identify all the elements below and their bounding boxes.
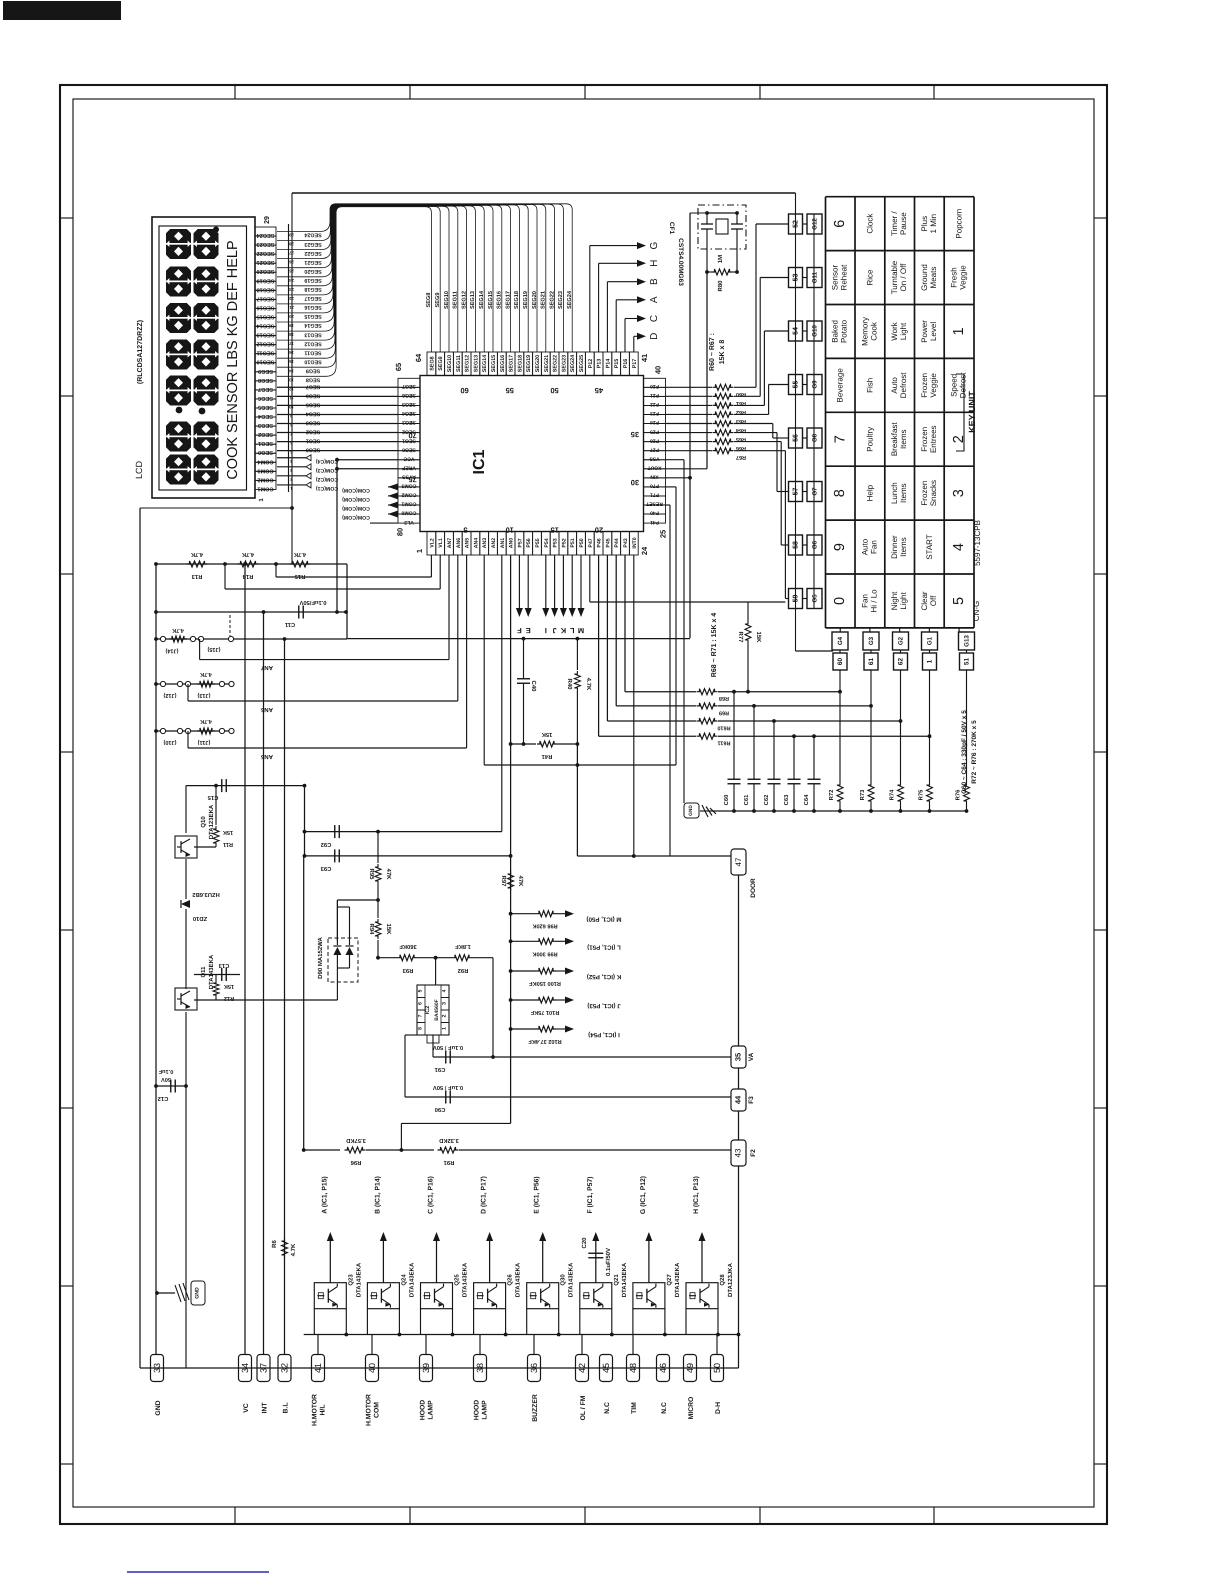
drive arrow G (IC1, P12) xyxy=(648,1240,650,1283)
svg-text:SEG16: SEG16 xyxy=(304,304,321,310)
svg-text:R98 620K: R98 620K xyxy=(532,923,557,929)
svg-text:SEG1: SEG1 xyxy=(258,440,273,446)
key line box G9 xyxy=(807,375,822,395)
svg-text:D-H: D-H xyxy=(715,1402,722,1414)
svg-text:P41: P41 xyxy=(650,519,659,525)
svg-text:43: 43 xyxy=(734,1148,743,1157)
svg-text:SEG8: SEG8 xyxy=(258,377,273,383)
svg-text:G10: G10 xyxy=(812,325,819,337)
svg-text:7: 7 xyxy=(418,1014,424,1017)
svg-text:15K: 15K xyxy=(385,923,392,935)
key line box G5 xyxy=(807,589,822,609)
transistor Q28 DTA123JKA xyxy=(686,1283,718,1309)
svg-text:SEG18: SEG18 xyxy=(517,355,523,372)
svg-text:SEG15: SEG15 xyxy=(256,313,274,319)
svg-text:Meats: Meats xyxy=(929,267,938,289)
key column stubs from table xyxy=(839,628,841,632)
svg-text:B: B xyxy=(649,278,660,285)
svg-text:G2: G2 xyxy=(898,636,905,645)
svg-text:20: 20 xyxy=(595,526,603,535)
svg-text:15K: 15K xyxy=(223,829,233,835)
svg-text:P51: P51 xyxy=(570,538,576,547)
svg-text:COM1: COM1 xyxy=(401,501,416,507)
svg-text:AN1: AN1 xyxy=(500,538,506,548)
svg-text:INT: INT xyxy=(262,1402,269,1414)
svg-text:SEG5: SEG5 xyxy=(402,401,416,407)
door sense line xyxy=(577,855,731,857)
jumper row J12 J13 with AN6 xyxy=(156,683,232,685)
svg-text:SEG11: SEG11 xyxy=(304,349,321,355)
svg-text:47K: 47K xyxy=(517,875,524,887)
svg-text:SEG16: SEG16 xyxy=(497,291,503,309)
svg-text:SEG19: SEG19 xyxy=(304,277,321,283)
svg-text:G8: G8 xyxy=(812,433,819,442)
svg-text:SEG13: SEG13 xyxy=(473,355,479,372)
svg-text:36: 36 xyxy=(529,1363,539,1373)
left leg of divider xyxy=(303,856,305,1150)
svg-text:G7: G7 xyxy=(812,487,819,496)
svg-text:Items: Items xyxy=(899,483,908,503)
svg-text:SEG12: SEG12 xyxy=(461,291,467,309)
svg-text:Turntable: Turntable xyxy=(890,260,899,294)
svg-text:R69: R69 xyxy=(719,709,729,715)
svg-text:SEG15: SEG15 xyxy=(488,291,494,309)
terminal box 54 xyxy=(789,321,803,341)
svg-text:KEY UNIT: KEY UNIT xyxy=(967,391,977,433)
svg-text:16: 16 xyxy=(289,350,294,355)
svg-text:15: 15 xyxy=(289,359,294,364)
svg-text:56: 56 xyxy=(793,434,800,442)
svg-text:Auto: Auto xyxy=(890,377,899,394)
svg-text:Q27: Q27 xyxy=(666,1274,673,1286)
AN6 wire xyxy=(187,684,189,701)
svg-text:COM: COM xyxy=(374,1402,381,1418)
svg-text:R91: R91 xyxy=(443,1159,454,1166)
svg-text:SEG24: SEG24 xyxy=(567,290,573,309)
svg-text:50: 50 xyxy=(712,1363,722,1373)
terminal 37 INT xyxy=(257,1355,270,1382)
svg-text:P57: P57 xyxy=(517,538,523,547)
svg-text:On / Off: On / Off xyxy=(899,263,908,292)
svg-text:Fresh: Fresh xyxy=(950,267,959,287)
sheet outer border xyxy=(60,85,1107,1524)
svg-text:LAMP: LAMP xyxy=(482,1400,489,1420)
capacitor C13 xyxy=(194,974,240,976)
svg-text:R93: R93 xyxy=(402,967,413,974)
svg-text:Reheat: Reheat xyxy=(840,264,849,291)
terminal box 35 VA xyxy=(731,1046,746,1068)
svg-text:DOOR: DOOR xyxy=(750,878,757,898)
svg-text:Light: Light xyxy=(899,592,908,610)
crystal dash-dot box xyxy=(698,205,746,249)
svg-text:40: 40 xyxy=(367,1363,377,1373)
VSS ground wire xyxy=(666,459,685,461)
capacitor C20 0.1uF/50V on F drive xyxy=(588,1252,603,1254)
svg-text:8: 8 xyxy=(418,1027,424,1030)
LCD decimal point xyxy=(213,227,219,233)
svg-text:K (IC1, P52): K (IC1, P52) xyxy=(587,973,621,980)
border zone ticks top xyxy=(234,85,236,99)
svg-text:SEG9: SEG9 xyxy=(435,293,441,308)
svg-text:64: 64 xyxy=(414,353,423,362)
svg-text:SEG9: SEG9 xyxy=(438,356,444,370)
svg-text:SEG6: SEG6 xyxy=(258,395,273,401)
VCC rail down to C11 line xyxy=(336,460,338,612)
svg-text:AN5: AN5 xyxy=(260,753,273,760)
svg-text:15K x 8: 15K x 8 xyxy=(719,340,726,365)
svg-text:SEG10: SEG10 xyxy=(304,358,321,364)
svg-text:P26: P26 xyxy=(650,437,659,443)
svg-text:XOUT: XOUT xyxy=(648,464,662,470)
bus from scan line to box 60 xyxy=(796,650,834,652)
svg-text:R80: R80 xyxy=(717,280,724,292)
svg-text:22: 22 xyxy=(289,296,294,301)
AN7 wire xyxy=(199,639,201,660)
svg-text:SEG15: SEG15 xyxy=(304,313,321,319)
svg-text:SEG22: SEG22 xyxy=(256,250,274,256)
svg-text:15K: 15K xyxy=(541,731,552,737)
svg-text:Poultry: Poultry xyxy=(865,427,874,452)
svg-text:SEG13: SEG13 xyxy=(304,331,321,337)
svg-text:(J15): (J15) xyxy=(207,646,220,653)
svg-text:4.7K: 4.7K xyxy=(293,551,306,557)
svg-text:Ground: Ground xyxy=(920,264,929,291)
svg-text:LAMP: LAMP xyxy=(428,1400,435,1420)
page header black bar xyxy=(3,1,121,20)
svg-text:XIN: XIN xyxy=(650,474,659,480)
svg-text:C90: C90 xyxy=(435,1106,446,1113)
key return bus vertical xyxy=(813,214,815,609)
svg-text:P22: P22 xyxy=(650,401,659,407)
terminal 38 HOOD LAMP xyxy=(474,1355,487,1382)
jumper row J10 J11 with AN5 xyxy=(156,730,232,732)
svg-text:P12: P12 xyxy=(588,359,594,369)
svg-text:45: 45 xyxy=(601,1363,611,1373)
svg-text:SEG22: SEG22 xyxy=(304,250,321,256)
svg-text:C13: C13 xyxy=(218,962,229,969)
svg-text:Q11: Q11 xyxy=(200,966,207,978)
svg-text:P46: P46 xyxy=(597,538,603,547)
svg-text:SEG7: SEG7 xyxy=(402,383,416,389)
svg-text:45: 45 xyxy=(595,386,603,395)
svg-text:53: 53 xyxy=(793,274,800,282)
svg-text:G13: G13 xyxy=(964,635,971,647)
svg-text:Items: Items xyxy=(899,429,908,449)
transistor Q26 DTA143EKA xyxy=(474,1283,506,1309)
svg-text:4.7K: 4.7K xyxy=(241,551,254,557)
SEG7-SEG0 wires LCD to IC1 xyxy=(277,386,398,388)
svg-text:Pause: Pause xyxy=(899,212,908,235)
svg-text:H (IC1, P13): H (IC1, P13) xyxy=(693,1176,700,1214)
svg-text:P43: P43 xyxy=(623,538,629,547)
svg-text:SEG4: SEG4 xyxy=(402,410,416,416)
svg-text:H/L: H/L xyxy=(320,1405,327,1416)
Q11 emitter down xyxy=(185,1012,187,1368)
LCD module outline xyxy=(152,217,255,498)
svg-text:SEG5: SEG5 xyxy=(258,404,273,410)
capacitor C15 xyxy=(186,785,305,787)
svg-text:37: 37 xyxy=(259,1363,269,1373)
dual diode D90 MA152WA xyxy=(337,899,378,901)
XIN wire xyxy=(666,477,691,479)
key sense resistor lines R68-R71 xyxy=(624,555,626,692)
svg-text:SEG15: SEG15 xyxy=(491,355,497,372)
svg-text:R94: R94 xyxy=(368,923,375,935)
svg-text:G5: G5 xyxy=(812,594,819,603)
svg-text:R14: R14 xyxy=(242,573,253,579)
svg-text:SEG3: SEG3 xyxy=(258,422,273,428)
svg-text:R102 37.4KF: R102 37.4KF xyxy=(528,1038,562,1044)
svg-text:P21: P21 xyxy=(650,392,659,398)
svg-text:Q26: Q26 xyxy=(507,1274,514,1286)
LCD seven-segment digits xyxy=(166,229,191,259)
svg-text:SEG24: SEG24 xyxy=(304,232,321,238)
filter capacitors C60-C64 xyxy=(732,690,736,694)
svg-text:E: E xyxy=(526,626,531,635)
resistor R41 15K xyxy=(511,743,536,745)
svg-text:SEG12: SEG12 xyxy=(256,341,274,347)
svg-text:VA: VA xyxy=(748,1052,755,1061)
capacitor C93 xyxy=(305,855,511,857)
svg-text:Entrees: Entrees xyxy=(929,425,938,453)
svg-text:360KF: 360KF xyxy=(399,943,417,950)
svg-text:R68: R68 xyxy=(719,695,729,701)
svg-text:SEG23: SEG23 xyxy=(256,241,274,247)
svg-text:4.7K: 4.7K xyxy=(172,627,184,633)
svg-text:Fan: Fan xyxy=(860,594,869,608)
svg-text:START: START xyxy=(925,534,934,560)
key line box G6 xyxy=(807,535,822,555)
svg-text:Veggie: Veggie xyxy=(929,373,938,398)
svg-text:R6: R6 xyxy=(271,1240,278,1248)
svg-text:TIM: TIM xyxy=(631,1402,638,1414)
svg-text:52: 52 xyxy=(793,220,800,228)
key line box G8 xyxy=(807,428,822,448)
svg-text:COM(COM): COM(COM) xyxy=(342,505,370,511)
svg-text:DTA143EKA: DTA143EKA xyxy=(462,1262,469,1297)
svg-text:R99 300K: R99 300K xyxy=(532,950,557,956)
svg-text:R72 ~ R76 : 270K x 5: R72 ~ R76 : 270K x 5 xyxy=(971,720,978,784)
svg-text:SEG18: SEG18 xyxy=(514,291,520,309)
svg-text:AN2: AN2 xyxy=(491,538,497,548)
svg-text:50: 50 xyxy=(550,386,558,395)
svg-text:OL / FM: OL / FM xyxy=(580,1395,587,1420)
terminal box 52 xyxy=(789,214,803,234)
schematic enclosure left line xyxy=(291,193,293,564)
XOUT wire xyxy=(666,468,708,470)
svg-text:CSTS4.00MG63: CSTS4.00MG63 xyxy=(677,238,684,286)
svg-text:18: 18 xyxy=(289,332,294,337)
svg-text:5: 5 xyxy=(463,526,467,535)
svg-text:1.8KF: 1.8KF xyxy=(455,943,471,950)
svg-text:25: 25 xyxy=(289,269,294,274)
svg-text:L: L xyxy=(569,626,574,635)
svg-text:1: 1 xyxy=(415,549,424,553)
svg-text:SEG18: SEG18 xyxy=(256,286,274,292)
svg-text:J (IC1, P53): J (IC1, P53) xyxy=(587,1002,620,1009)
key line box G11 xyxy=(807,268,822,288)
svg-text:SEG8: SEG8 xyxy=(306,377,320,383)
transistor Q27 DTA143EKA xyxy=(633,1283,665,1309)
svg-text:H.MOTOR: H.MOTOR xyxy=(366,1394,373,1426)
svg-text:26: 26 xyxy=(289,260,294,265)
svg-text:15K: 15K xyxy=(224,983,234,989)
segment bus wires SEG24-SEG8 xyxy=(277,204,572,352)
drive arrow D (IC1, P17) xyxy=(489,1240,491,1283)
jumper dashes xyxy=(229,615,231,636)
key line box G7 xyxy=(807,482,822,502)
door line down xyxy=(738,875,740,1046)
crystal resonator symbol xyxy=(701,223,713,225)
svg-text:P16: P16 xyxy=(623,359,629,369)
svg-text:SEG0: SEG0 xyxy=(306,447,320,453)
svg-text:Frozen: Frozen xyxy=(920,427,929,452)
IC1 top pin row xyxy=(427,352,436,376)
svg-text:G4: G4 xyxy=(837,636,844,645)
svg-text:HOOD: HOOD xyxy=(474,1400,481,1420)
svg-text:65: 65 xyxy=(394,363,403,371)
svg-text:(J14): (J14) xyxy=(165,648,178,655)
svg-text:SEG19: SEG19 xyxy=(256,277,274,283)
svg-text:CN-G: CN-G xyxy=(972,601,981,621)
svg-text:4: 4 xyxy=(951,543,967,551)
svg-text:30: 30 xyxy=(631,478,639,487)
svg-text:C20: C20 xyxy=(581,1237,588,1249)
terminal feed stubs xyxy=(317,1335,319,1355)
svg-text:0.1uF / 50V: 0.1uF / 50V xyxy=(433,1084,463,1091)
ground symbol key unit xyxy=(684,803,699,818)
svg-text:H.MOTOR: H.MOTOR xyxy=(312,1394,319,1426)
svg-text:N.C: N.C xyxy=(661,1402,668,1414)
VCC VREF wires xyxy=(337,459,398,461)
RESET wire to door line xyxy=(666,504,671,506)
svg-text:4: 4 xyxy=(442,989,448,992)
svg-text:R92: R92 xyxy=(458,967,469,974)
svg-text:Memory: Memory xyxy=(860,317,869,346)
terminal 32 B.L xyxy=(278,1355,291,1382)
svg-text:SEG14: SEG14 xyxy=(479,290,485,309)
svg-text:(J10): (J10) xyxy=(163,739,176,746)
svg-text:Fish: Fish xyxy=(865,378,874,393)
svg-text:62: 62 xyxy=(898,658,905,666)
svg-text:(J11): (J11) xyxy=(197,739,210,746)
svg-text:13: 13 xyxy=(289,377,294,382)
svg-text:14: 14 xyxy=(289,368,294,373)
svg-text:COM(COM): COM(COM) xyxy=(342,514,370,520)
svg-text:Q28: Q28 xyxy=(719,1274,726,1286)
svg-text:R95: R95 xyxy=(368,868,375,880)
svg-text:COM(C3): COM(C3) xyxy=(316,467,338,473)
key line box G10 xyxy=(807,321,822,341)
svg-text:Snacks: Snacks xyxy=(929,480,938,506)
svg-text:C64: C64 xyxy=(803,794,810,805)
svg-text:Frozen: Frozen xyxy=(920,481,929,506)
svg-text:SEG0: SEG0 xyxy=(402,446,416,452)
border zone ticks left xyxy=(60,217,73,219)
svg-text:9: 9 xyxy=(832,543,848,551)
svg-text:M (IC1, P50): M (IC1, P50) xyxy=(586,916,621,923)
svg-text:DTA143EKA: DTA143EKA xyxy=(208,954,215,989)
AN1 feed down to C92 line xyxy=(501,555,503,832)
svg-text:C92: C92 xyxy=(321,841,332,848)
svg-text:25: 25 xyxy=(659,530,668,538)
svg-text:Clear: Clear xyxy=(920,591,929,610)
svg-text:SEG17: SEG17 xyxy=(505,291,511,309)
svg-text:Defrost: Defrost xyxy=(899,372,908,399)
Q26 emitter legs xyxy=(473,1309,475,1335)
svg-text:SEG18: SEG18 xyxy=(304,286,321,292)
svg-text:I (IC1, P54): I (IC1, P54) xyxy=(588,1031,620,1038)
svg-text:P56: P56 xyxy=(526,538,532,547)
svg-text:SEG2: SEG2 xyxy=(306,429,320,435)
svg-text:(RLCDSA127DRZZ): (RLCDSA127DRZZ) xyxy=(136,320,144,384)
svg-text:4.7K: 4.7K xyxy=(200,671,212,677)
svg-text:55: 55 xyxy=(793,381,800,389)
svg-text:SEG10: SEG10 xyxy=(256,359,274,365)
svg-text:5: 5 xyxy=(418,989,424,992)
svg-text:R67: R67 xyxy=(736,454,746,460)
svg-text:3: 3 xyxy=(442,1002,448,1005)
resistor R94 15K xyxy=(377,900,379,918)
svg-text:G1: G1 xyxy=(927,636,934,645)
COM wires IC1 side with arrows xyxy=(388,486,398,488)
svg-text:51: 51 xyxy=(964,658,971,666)
svg-text:SEG7: SEG7 xyxy=(306,383,320,389)
svg-text:R41: R41 xyxy=(541,753,552,759)
terminal box 53 xyxy=(789,268,803,288)
svg-text:COM2: COM2 xyxy=(257,476,273,482)
svg-text:G9: G9 xyxy=(812,380,819,389)
svg-text:Speed: Speed xyxy=(950,374,959,397)
LCD enclosure bottom line xyxy=(140,507,292,509)
svg-text:19: 19 xyxy=(289,323,294,328)
svg-text:61: 61 xyxy=(868,658,875,666)
svg-text:1: 1 xyxy=(927,659,934,663)
svg-text:41: 41 xyxy=(640,354,649,362)
svg-text:P40: P40 xyxy=(650,510,659,516)
P20-P27 wires through R60-R67 to key lines xyxy=(666,386,713,388)
P70 wire down to R40 node xyxy=(666,486,677,488)
svg-text:R75: R75 xyxy=(919,789,925,800)
Q23 emitter legs xyxy=(313,1309,315,1335)
svg-text:Q24: Q24 xyxy=(400,1274,407,1286)
svg-text:SEG9: SEG9 xyxy=(306,367,320,373)
svg-text:(J13): (J13) xyxy=(197,692,210,699)
svg-text:C93: C93 xyxy=(320,865,331,872)
capacitor C40 xyxy=(523,639,525,678)
svg-text:IC2: IC2 xyxy=(425,1006,431,1015)
resistor R11 15K xyxy=(215,786,217,825)
svg-text:VL1: VL1 xyxy=(438,538,444,548)
VC rail vertical xyxy=(244,564,246,1354)
svg-text:P55: P55 xyxy=(535,538,541,547)
svg-text:40: 40 xyxy=(654,366,663,374)
svg-text:54: 54 xyxy=(793,327,800,335)
capacitor C90 0.1uF/50V xyxy=(405,1096,731,1098)
terminal 41 H.MOTOR H/L xyxy=(312,1355,325,1382)
svg-text:MICRO: MICRO xyxy=(688,1397,695,1420)
svg-text:R73: R73 xyxy=(859,789,866,800)
svg-text:C (IC1, P16): C (IC1, P16) xyxy=(428,1176,435,1214)
AN0 sensor rail xyxy=(510,555,512,1123)
svg-text:Beverage: Beverage xyxy=(836,368,845,403)
svg-text:SEG7: SEG7 xyxy=(258,386,273,392)
pulldown resistors R72-R76 xyxy=(839,670,841,782)
svg-text:F (IC1, P57): F (IC1, P57) xyxy=(587,1176,594,1213)
svg-text:C15: C15 xyxy=(207,794,218,801)
capacitor C91 0.1uF/50V xyxy=(433,1056,731,1058)
svg-text:Q21: Q21 xyxy=(613,1274,620,1286)
